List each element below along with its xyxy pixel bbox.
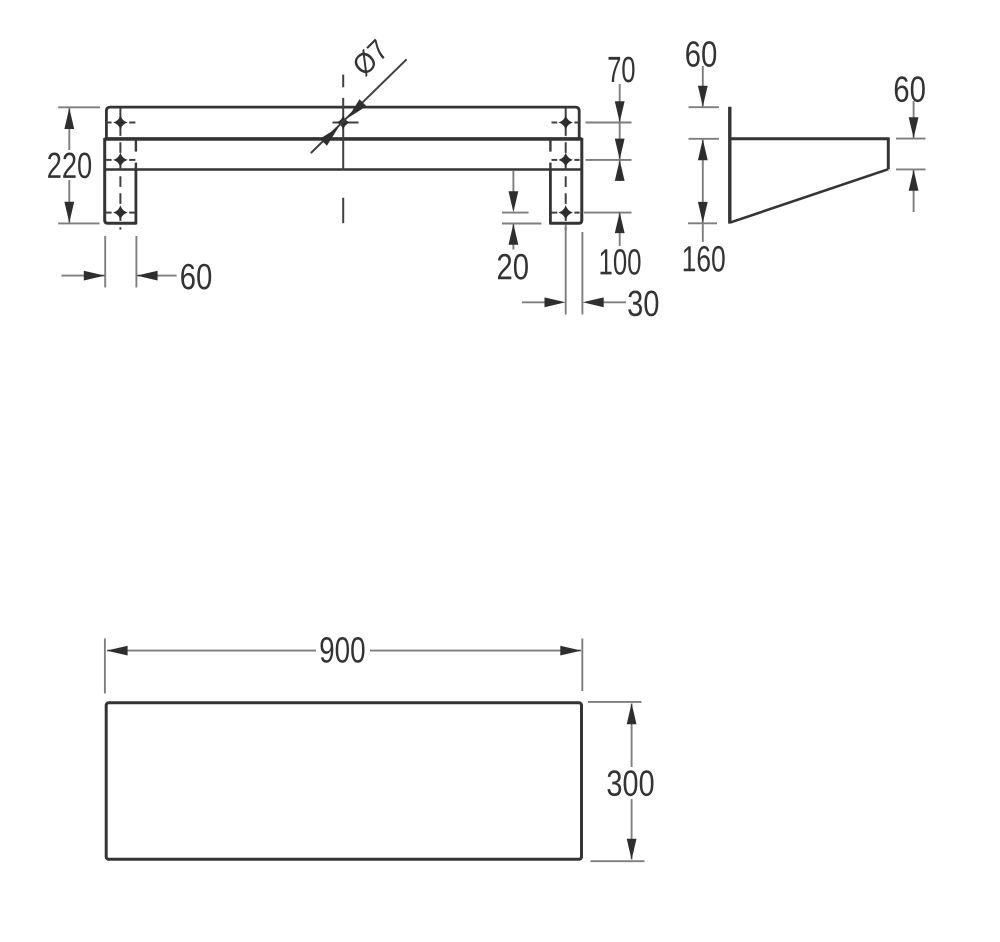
hole marker: left hole row2	[106, 154, 136, 165]
dimension 60 (side view, plate above arm)	[686, 41, 719, 139]
front view: left outer edge (apron end + left bracket)	[105, 138, 136, 223]
dimension 30 (hole to right end)	[522, 225, 658, 317]
dimension 160 (side view, plate below arm)	[684, 139, 725, 271]
plan view: shelf outline 900x300	[106, 703, 581, 860]
centerline: middle hole (chain line)	[342, 75, 344, 224]
front view: left bracket visible inner edge	[134, 170, 137, 225]
front view: shelf divider line (bottom of top band)	[105, 137, 582, 141]
centerline: right bracket holes	[565, 108, 567, 229]
hole marker: centre hole row1	[333, 117, 359, 128]
hole marker: right hole row3	[552, 207, 580, 218]
front view: right bracket visible inner edge	[549, 170, 552, 225]
centerline: left bracket holes	[119, 108, 121, 229]
side view: bracket tip edge	[887, 137, 890, 169]
hole marker: left hole row1	[106, 117, 136, 128]
side view: bracket wall plate edge	[728, 107, 731, 224]
dimension 70 (hole row1 to row2, right side)	[586, 57, 635, 181]
front view: apron band bottom edge	[105, 168, 582, 171]
hole marker: right hole row2	[552, 154, 580, 165]
dimension 100 (hole row2 to row3, right side)	[584, 212, 641, 275]
front view: right bracket hidden inner edge (dashed)	[549, 140, 551, 169]
leader with hole diameter label Ø7	[311, 38, 407, 153]
dimension 900 (plan width)	[105, 637, 582, 694]
side view: bracket top arm	[730, 137, 889, 140]
hole marker: left hole row3	[106, 207, 136, 218]
side view: bracket tapered bottom edge	[731, 169, 888, 222]
dimension 300 (plan depth)	[588, 702, 654, 861]
dimension 20 (row3 hole above bracket bottom)	[498, 171, 541, 280]
front view: shelf top edge band	[106, 107, 579, 139]
front view: right outer edge (apron end + right bracket)	[550, 138, 581, 223]
front view: left bracket hidden inner edge (dashed)	[135, 140, 137, 169]
dimension 60 (side view, tip height)	[895, 76, 926, 212]
hole marker: right hole row1	[552, 117, 580, 128]
dimension 60 (left bracket width)	[61, 236, 211, 290]
dimension 220 (left overall height)	[48, 107, 100, 223]
